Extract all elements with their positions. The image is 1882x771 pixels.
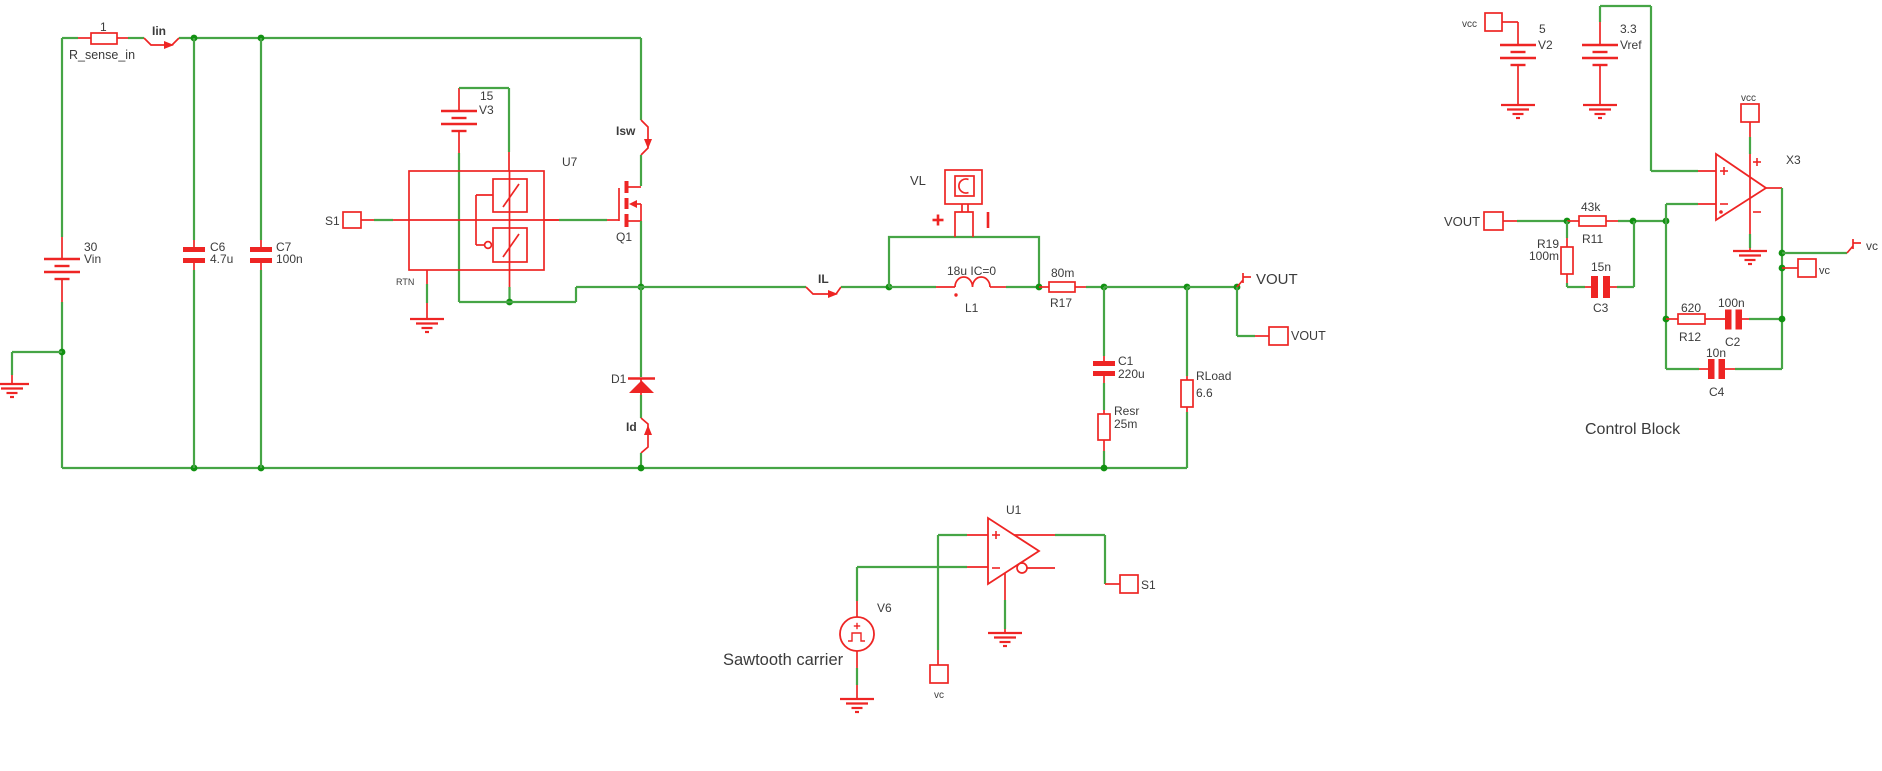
svg-text:vc: vc <box>934 690 944 701</box>
resistor R17 80m <box>1039 266 1086 310</box>
wire ground tap <box>12 352 62 375</box>
svg-text:100n: 100n <box>276 252 303 266</box>
U7 switch 2 <box>493 228 527 262</box>
svg-text:vc: vc <box>1819 265 1831 277</box>
svg-text:Resr: Resr <box>1114 404 1139 418</box>
svg-text:IL: IL <box>818 272 829 286</box>
wire Id to bottom rail <box>640 453 642 468</box>
ground V2 <box>1501 105 1535 118</box>
svg-text:D1: D1 <box>611 372 627 386</box>
U7 gate driver box <box>409 155 578 270</box>
svg-text:Control Block: Control Block <box>1585 421 1681 438</box>
svg-text:C4: C4 <box>1709 385 1725 399</box>
svg-text:Vin: Vin <box>84 252 101 266</box>
wire R19 to C3 <box>1567 283 1585 287</box>
wire V3 plus to U7 vcc <box>459 88 509 152</box>
svg-text:V3: V3 <box>479 103 494 117</box>
capacitor C7 100n <box>250 38 303 468</box>
node switch <box>638 284 645 291</box>
wire C3 to R11 right <box>1617 221 1634 287</box>
U1 ground pin <box>1004 573 1006 633</box>
voltage source V6 sawtooth <box>723 567 892 669</box>
node C3 top <box>1630 218 1637 225</box>
svg-text:Iin: Iin <box>152 24 166 38</box>
node VL bracket left <box>886 284 893 291</box>
svg-text:U7: U7 <box>562 155 578 169</box>
wire switch node to D1 <box>640 287 642 377</box>
svg-text:VOUT: VOUT <box>1291 329 1326 343</box>
wire Isw to Q1 drain <box>640 155 642 186</box>
wire top rail to Iin probe <box>128 37 144 39</box>
wire L1 to bracket right <box>1006 286 1039 288</box>
U1 output bubble <box>1017 563 1055 573</box>
svg-text:620: 620 <box>1681 301 1701 315</box>
X3 plus pin <box>1698 170 1716 172</box>
node Resr bottom <box>1101 465 1108 472</box>
ground input <box>0 375 29 397</box>
wire V6 to U1 minus <box>857 566 967 568</box>
svg-text:1: 1 <box>100 20 107 34</box>
svg-text:vcc: vcc <box>1741 93 1756 104</box>
wire Vref to X3 plus <box>1600 6 1698 171</box>
wire S1 to U7 <box>361 219 393 221</box>
wire C2 to output node <box>1749 318 1782 320</box>
current probe Iin <box>144 24 179 49</box>
wire Q1 source to switch node <box>640 221 642 287</box>
port VOUT sense <box>1444 212 1503 230</box>
wire R11 to minus node <box>1618 220 1666 222</box>
svg-text:VOUT: VOUT <box>1256 271 1298 288</box>
capacitor C3 15n <box>1585 260 1617 315</box>
svg-text:V2: V2 <box>1538 38 1553 52</box>
svg-text:Q1: Q1 <box>616 230 632 244</box>
svg-text:U1: U1 <box>1006 503 1022 517</box>
U1 minus pin <box>967 566 988 568</box>
ground U1 <box>988 633 1022 646</box>
label Control Block <box>1585 421 1681 438</box>
node R12 left <box>1663 316 1670 323</box>
voltage probe VL <box>910 170 988 237</box>
wire to vc flag <box>1782 252 1847 254</box>
svg-text:Id: Id <box>626 420 637 434</box>
wire D1 to Id probe <box>640 395 642 418</box>
node RLoad top <box>1184 284 1191 291</box>
U7 RTN pin <box>396 270 427 319</box>
svg-text:L1: L1 <box>965 301 979 315</box>
svg-text:15n: 15n <box>1591 260 1611 274</box>
voltage source Vref 3.3 <box>1582 22 1642 105</box>
U7 switch 1 <box>493 179 527 212</box>
port vcc V2 <box>1462 13 1502 31</box>
svg-text:Sawtooth carrier: Sawtooth carrier <box>723 651 844 669</box>
capacitor C4 10n <box>1699 346 1735 399</box>
wire VOUT port to R11 <box>1503 220 1567 222</box>
current probe Id <box>626 418 652 453</box>
capacitor C2 100n <box>1718 296 1749 349</box>
wire R17 to C1 node <box>1086 286 1104 288</box>
svg-text:R17: R17 <box>1050 296 1072 310</box>
resistor R11 43k <box>1567 200 1618 246</box>
node minus input <box>1663 218 1670 225</box>
svg-text:RTN: RTN <box>396 277 414 287</box>
voltage source V2 5 <box>1500 22 1553 105</box>
X3 output pin <box>1766 187 1782 189</box>
svg-text:3.3: 3.3 <box>1620 22 1637 36</box>
wire drain from top rail <box>640 38 642 120</box>
wire C4 left <box>1666 368 1699 370</box>
wire V6 to ground <box>856 668 858 685</box>
node R19 top <box>1564 218 1571 225</box>
node vc port <box>1779 265 1786 272</box>
ground X3 <box>1733 251 1767 264</box>
svg-text:X3: X3 <box>1786 153 1801 167</box>
svg-text:R11: R11 <box>1582 232 1603 246</box>
resistor R_sense_in <box>69 20 135 62</box>
svg-text:S1: S1 <box>325 214 340 228</box>
wire U7 out to gate <box>544 219 607 221</box>
svg-text:vc: vc <box>1866 239 1878 253</box>
U1 plus pin <box>967 534 988 536</box>
port S1 output <box>1120 575 1156 593</box>
svg-text:100m: 100m <box>1529 249 1559 263</box>
op-amp U1 comparator <box>988 503 1039 584</box>
wire VL probe bracket <box>889 237 1039 287</box>
node bottom C7 <box>258 465 265 472</box>
wire C1 node to RLoad node <box>1104 286 1187 288</box>
svg-text:100n: 100n <box>1718 296 1745 310</box>
svg-text:Vref: Vref <box>1620 38 1642 52</box>
svg-text:RLoad: RLoad <box>1196 369 1231 383</box>
svg-text:10n: 10n <box>1706 346 1726 360</box>
capacitor C6 4.7u <box>183 38 233 468</box>
U1 output pin <box>1014 534 1055 536</box>
transistor Q1 NMOS <box>607 181 641 244</box>
svg-text:R_sense_in: R_sense_in <box>69 48 135 62</box>
resistor Resr 25m <box>1098 404 1139 451</box>
ground RTN <box>410 319 444 332</box>
voltage source V3 15 <box>441 88 494 153</box>
resistor R19 100m <box>1529 221 1573 283</box>
svg-text:C3: C3 <box>1593 301 1609 315</box>
wire Vin to bottom rail <box>61 302 63 468</box>
wire Resr to bottom rail <box>1103 451 1105 468</box>
wire bottom rail <box>62 467 1187 469</box>
svg-text:5: 5 <box>1539 22 1546 36</box>
node bottom C6 <box>191 465 198 472</box>
node U7 pole to source <box>506 299 513 306</box>
wire to VOUT flag <box>1187 286 1237 288</box>
current probe Isw <box>616 120 652 155</box>
port S1 input <box>325 212 361 228</box>
op-amp X3 error amplifier <box>1716 153 1801 220</box>
U7 pole line <box>508 152 511 302</box>
node D1 bottom <box>638 465 645 472</box>
svg-text:25m: 25m <box>1114 417 1137 431</box>
current probe IL <box>806 272 841 298</box>
X3 ground pin <box>1749 234 1751 251</box>
svg-text:43k: 43k <box>1581 200 1601 214</box>
svg-text:vcc: vcc <box>1462 19 1477 30</box>
wire top rail <box>179 37 641 39</box>
port vc control <box>1782 259 1831 277</box>
net flag VOUT <box>1237 271 1298 288</box>
port vc pwm input <box>930 650 948 701</box>
U7 pin line input <box>393 219 559 221</box>
inductor L1 18u <box>936 264 1006 315</box>
wire U7 bottom to switch node <box>459 287 607 302</box>
svg-text:15: 15 <box>480 89 494 103</box>
ground V6 <box>840 685 874 712</box>
svg-text:VL: VL <box>910 173 926 188</box>
resistor R12 620 <box>1666 301 1725 344</box>
node vc flag <box>1779 250 1786 257</box>
node VL bracket right <box>1036 284 1043 291</box>
wire IL to L1 <box>841 286 889 288</box>
net flag vc <box>1847 239 1878 253</box>
node top C6 <box>191 35 198 42</box>
wire vc to U1 plus <box>938 535 967 650</box>
port vcc X3 <box>1741 93 1759 122</box>
svg-text:Isw: Isw <box>616 124 636 138</box>
svg-text:R12: R12 <box>1679 330 1701 344</box>
svg-text:C2: C2 <box>1725 335 1741 349</box>
svg-text:18u IC=0: 18u IC=0 <box>947 264 996 278</box>
node Vin ground tap <box>59 349 66 356</box>
wire VOUT to port <box>1237 287 1269 336</box>
svg-text:V6: V6 <box>877 601 892 615</box>
wire minus input vertical <box>1666 204 1698 369</box>
svg-text:6.6: 6.6 <box>1196 386 1213 400</box>
node VOUT <box>1234 284 1241 291</box>
wire to L1 left <box>889 286 936 288</box>
node C1 top <box>1101 284 1108 291</box>
svg-text:80m: 80m <box>1051 266 1074 280</box>
wire left vertical <box>61 38 63 237</box>
wire top rail left <box>62 37 78 39</box>
U7 internal link bus <box>476 195 493 248</box>
wire switch node to IL probe <box>607 286 806 288</box>
svg-text:4.7u: 4.7u <box>210 252 233 266</box>
node C2 right <box>1779 316 1786 323</box>
wire C4 right <box>1735 368 1782 370</box>
svg-text:S1: S1 <box>1141 578 1156 592</box>
X3 vcc pin <box>1750 122 1761 234</box>
resistor RLoad 6.6 <box>1181 287 1231 468</box>
voltage source Vin 30 <box>44 237 101 302</box>
ground Vref <box>1583 105 1617 118</box>
diode D1 <box>611 372 655 397</box>
node top C7 <box>258 35 265 42</box>
svg-text:220u: 220u <box>1118 367 1145 381</box>
wire C1 to Resr <box>1103 383 1105 410</box>
wire X3 output down <box>1781 188 1783 369</box>
capacitor C1 220u <box>1093 287 1145 383</box>
svg-text:C1: C1 <box>1118 354 1134 368</box>
svg-text:VOUT: VOUT <box>1444 214 1480 229</box>
X3 minus pin <box>1698 203 1716 205</box>
wire U1 output to S1 <box>1055 535 1120 584</box>
wire V3 minus down <box>458 153 460 302</box>
port VOUT output <box>1269 327 1326 345</box>
